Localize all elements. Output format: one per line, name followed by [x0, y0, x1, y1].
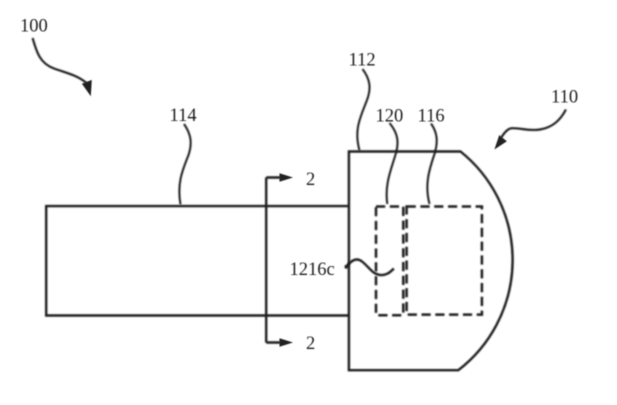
arrowhead 100: [82, 80, 92, 96]
svg-text:100: 100: [20, 17, 48, 37]
section line 2-2: [266, 178, 280, 343]
arrowhead 110: [494, 135, 507, 149]
arrow leader 100: [33, 38, 87, 83]
section arrow bottom: [280, 338, 294, 347]
arrow leader 110: [501, 110, 566, 138]
leader 114: [179, 124, 190, 205]
svg-text:120: 120: [376, 107, 404, 127]
squiggle start dot: [345, 265, 349, 269]
svg-text:112: 112: [349, 51, 376, 71]
head outline 110: [349, 152, 513, 371]
svg-text:1216c: 1216c: [290, 260, 335, 280]
dashed inner box 116: [407, 207, 482, 315]
svg-text:2: 2: [306, 170, 315, 190]
leader 120: [387, 123, 398, 204]
svg-text:110: 110: [551, 88, 578, 108]
svg-text:2: 2: [306, 334, 315, 354]
body rectangle 114: [46, 206, 349, 315]
leader 116: [427, 124, 436, 205]
svg-text:114: 114: [170, 106, 197, 126]
section arrow top: [280, 173, 294, 182]
svg-text:116: 116: [418, 106, 445, 126]
dashed inner box 120: [376, 207, 403, 316]
squiggle leader 1216c: [346, 259, 394, 275]
leader 112: [357, 69, 369, 151]
